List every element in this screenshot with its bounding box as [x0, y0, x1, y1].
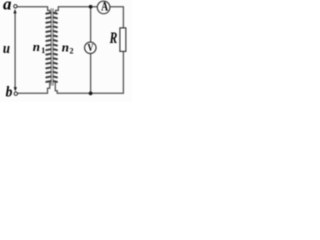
- svg-text:n: n: [33, 39, 40, 54]
- svg-text:V: V: [87, 42, 93, 53]
- svg-text:a: a: [3, 0, 12, 14]
- svg-text:A: A: [101, 0, 108, 13]
- svg-text:R: R: [109, 31, 118, 48]
- svg-text:2: 2: [70, 47, 74, 56]
- svg-text:1: 1: [41, 46, 45, 55]
- svg-text:u: u: [3, 41, 10, 57]
- svg-text:b: b: [6, 84, 13, 101]
- svg-text:n: n: [62, 39, 69, 54]
